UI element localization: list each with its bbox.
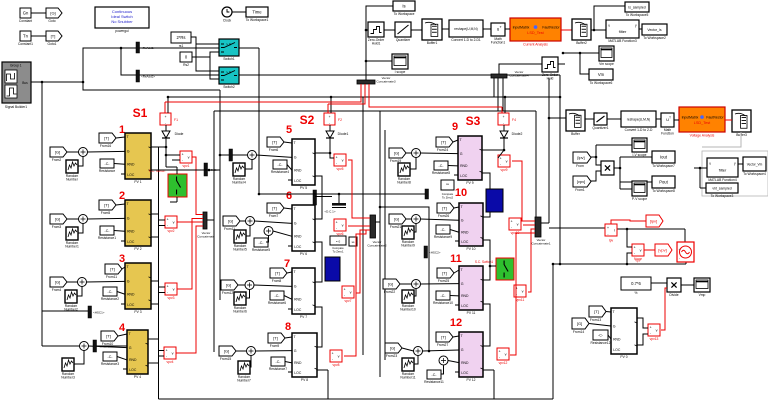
svg-text:+: +: [500, 156, 502, 160]
svg-text:reshape(U,M,N): reshape(U,M,N): [627, 118, 650, 122]
from tag [G] From2: [50, 147, 67, 162]
svg-text:-C-: -C-: [259, 241, 265, 245]
svg-text:G: G: [129, 346, 132, 350]
wire: F2 to diode1: [329, 125, 331, 128]
svg-text:+: +: [332, 351, 334, 355]
wire: vpv3 red to concatenate: [177, 219, 203, 290]
wire: PV5-PV6 series: [315, 176, 322, 219]
svg-text:Number4: Number4: [232, 181, 246, 185]
svg-text:vpv12: vpv12: [499, 361, 508, 365]
svg-text:LOC: LOC: [460, 174, 468, 178]
svg-text:<D.C.1>: <D.C.1>: [324, 210, 335, 214]
powergui block: [95, 7, 149, 33]
svg-text:Resistance2: Resistance2: [101, 297, 119, 301]
svg-text:Switch1: Switch1: [223, 57, 235, 61]
svg-text:G: G: [294, 285, 297, 289]
svg-text:[T]: [T]: [106, 334, 111, 339]
selector <Gstar1>: [93, 340, 112, 352]
wire: bus to Gstar2 bar: [220, 154, 229, 156]
wire: red tap into F1: [164, 102, 166, 113]
wire: 2*Rs into switches: [191, 37, 219, 44]
svg-text:[T]: [T]: [594, 309, 599, 314]
svg-text:Ipv: Ipv: [609, 239, 614, 243]
random number module 8: [237, 361, 251, 383]
wire: from14 to PV0 G: [589, 324, 611, 327]
buffer2: [572, 19, 591, 45]
sum junction module 9: [412, 149, 421, 158]
svg-text:vpv11: vpv11: [516, 298, 525, 302]
pv module PV 11: [459, 266, 483, 315]
diode Diode1: [326, 128, 348, 141]
svg-text:%: %: [635, 291, 638, 295]
svg-text:v: v: [338, 355, 340, 359]
random number module 6: [233, 230, 247, 252]
wire: vpv meas taps: [627, 229, 632, 247]
diode Diode2: [500, 128, 522, 141]
svg-text:LOC: LOC: [461, 371, 469, 375]
svg-text:12: 12: [450, 317, 462, 329]
quantizer1: [592, 113, 608, 130]
svg-text:-: -: [500, 162, 501, 166]
svg-text:Number3: Number3: [61, 376, 75, 380]
wire: short line y=196.5: [315, 196, 332, 198]
svg-text:S2: S2: [300, 113, 315, 127]
svg-text:Quantizer1: Quantizer1: [592, 126, 608, 130]
wire: LOC stub module 7: [288, 308, 292, 310]
svg-text:Buffer3: Buffer3: [736, 133, 747, 137]
svg-text:vpv5: vpv5: [337, 167, 344, 171]
svg-text:PV 9: PV 9: [466, 181, 473, 185]
wire: branch y=207 to x=429: [380, 207, 429, 351]
wire: vpv10 red to concat1: [523, 224, 535, 226]
wire: fuse to diode: [165, 125, 167, 128]
svg-text:-C-: -C-: [598, 333, 604, 337]
wire: red tap into F4: [501, 107, 503, 113]
svg-text:Function1: Function1: [491, 41, 506, 45]
resistance module 9: [432, 161, 450, 175]
svg-text:PV 4: PV 4: [134, 375, 141, 379]
svg-text:Buffer1: Buffer1: [427, 41, 438, 45]
svg-text:-: -: [336, 226, 337, 230]
svg-text:-: -: [499, 355, 500, 359]
svg-text:Resistance10: Resistance10: [433, 301, 453, 305]
wire: 0.7 to divide: [651, 282, 667, 284]
to-workspace Pout: [652, 176, 675, 193]
svg-text:Tn: Tn: [23, 34, 29, 39]
random number module 9: [397, 163, 411, 185]
svg-text:[T]: [T]: [441, 140, 446, 145]
svg-text:+: +: [166, 348, 168, 352]
wire: PV2 plus stub: [151, 213, 159, 215]
sum junction module 5: [248, 151, 257, 160]
red goto [vpv]: [655, 244, 672, 256]
svg-text:-: -: [167, 223, 168, 227]
svg-text:[G]: [G]: [394, 217, 399, 222]
voltage measurement vpv10: [509, 218, 521, 235]
svg-text:Signal Builder1: Signal Builder1: [5, 105, 27, 109]
svg-text:vpv9: vpv9: [501, 168, 508, 172]
wire: vpv6 red to concat2: [348, 225, 370, 227]
svg-text:Concatenate3: Concatenate3: [376, 79, 396, 83]
vector concatenate2: [367, 215, 387, 247]
vector concatenate1: [531, 217, 551, 245]
svg-text:[G]: [G]: [50, 11, 55, 16]
pv module PV 10: [459, 203, 483, 251]
wire: concat S1 out to x=214: [207, 219, 214, 221]
wire: S3 bottom drop x=494: [493, 370, 495, 399]
wire: to Vm workspace: [580, 53, 589, 74]
from tag [G] From23: [385, 343, 402, 358]
random number module 11: [400, 290, 416, 312]
wire: resistance11 into sum 12b: [441, 366, 444, 375]
svg-text:Resistance5: Resistance5: [252, 248, 270, 252]
svg-text:PV 3: PV 3: [134, 310, 141, 314]
quantizer: [395, 22, 411, 42]
wire: G chain into PV 12: [402, 348, 414, 351]
wire: F4 to diode2: [503, 125, 505, 128]
svg-text:+: +: [182, 152, 184, 156]
svg-text:P-V scope: P-V scope: [632, 197, 647, 201]
I scope: [392, 54, 408, 74]
wire: G chain into PV 10: [406, 218, 412, 220]
svg-text:To Workspace1: To Workspace1: [246, 18, 269, 22]
buffer: [566, 110, 585, 136]
from tag [T] From8: [270, 268, 287, 283]
wire: reshape1-mathfn1: [483, 28, 491, 30]
svg-text:To Workspace2: To Workspace2: [643, 36, 666, 40]
voltage measurement vpv1: [180, 151, 192, 168]
svg-text:From27: From27: [437, 343, 449, 347]
wire: PV3 minus stub: [151, 303, 159, 305]
wire: Tn to Goto1: [31, 35, 46, 37]
svg-text:RND: RND: [294, 234, 302, 238]
svg-text:To Workspace: To Workspace: [394, 12, 415, 16]
svg-text:+: +: [511, 219, 513, 223]
svg-text:FaultVector: FaultVector: [706, 116, 724, 120]
fuse F2: [324, 113, 342, 125]
wire: LOC stub module 6: [288, 245, 292, 247]
svg-text:+: +: [499, 349, 501, 353]
svg-text:Resistance9: Resistance9: [434, 235, 452, 239]
wire: top bus y=111: [214, 110, 536, 112]
wire: res12 to PV0 RND: [608, 335, 611, 339]
svg-text:+: +: [607, 226, 609, 230]
clock block: [222, 7, 232, 23]
wire: product outputs: [614, 167, 620, 169]
wire: random number to sum module 1: [78, 157, 83, 167]
wire: PV3 plus stub: [151, 280, 159, 282]
svg-text:-C-: -C-: [441, 228, 447, 232]
wire: vpv1 red to concatenate: [192, 157, 203, 215]
resistance module 7: [268, 291, 286, 305]
wire: filter4 to vector_vm: [738, 163, 743, 165]
svg-text:Current Analysis: Current Analysis: [523, 42, 548, 46]
from tag [G] From21: [389, 214, 406, 229]
svg-text:S1: S1: [133, 106, 148, 120]
svg-text:RND: RND: [127, 229, 135, 233]
svg-text:Number11: Number11: [400, 376, 415, 380]
sum junction module 6: [246, 217, 255, 226]
svg-text:-: -: [182, 158, 183, 162]
sum junction module 11: [412, 280, 421, 289]
wire: junction to vpv1: [166, 154, 180, 156]
svg-text:Pout: Pout: [659, 180, 668, 185]
svg-text:To Workspace4: To Workspace4: [743, 172, 766, 176]
svg-text:+: +: [165, 115, 167, 119]
wire: G chain into PV 6: [240, 220, 246, 222]
svg-text:Resistance12: Resistance12: [591, 341, 611, 345]
wire: into buffer: [549, 117, 566, 119]
wire: random number to sum module 6: [246, 226, 250, 237]
product multiply: [601, 161, 614, 175]
voltage measurement vpv11: [514, 285, 526, 302]
svg-text:Iout: Iout: [660, 155, 668, 160]
svg-text:[T]: [T]: [104, 136, 109, 141]
svg-text:-: -: [634, 251, 635, 255]
svg-text:F1: F1: [174, 118, 178, 122]
sum junction module 10: [412, 215, 421, 224]
svg-text:LOC: LOC: [127, 303, 135, 307]
wire: right vertical x=560: [559, 75, 561, 264]
resistance module 4: [101, 352, 119, 366]
wire: blue to PV10: [483, 212, 490, 217]
svg-text:PV 6: PV 6: [300, 252, 307, 256]
wire: concat riser x=549: [548, 78, 550, 223]
svg-text:Is_sampled: Is_sampled: [628, 6, 645, 10]
wire: PV2 minus stub: [151, 236, 159, 238]
svg-text:2*Rs: 2*Rs: [176, 35, 185, 40]
fuse F1: [160, 113, 178, 125]
pv module PV 3: [125, 263, 151, 314]
svg-text:PV 0: PV 0: [620, 355, 627, 359]
wire: Gstar bar to PV4 G input: [96, 345, 127, 347]
sum junction module 12: [414, 347, 423, 356]
wire: branch to Gstar bar: [42, 345, 80, 347]
svg-text:u: u: [709, 162, 711, 166]
random number module 12: [400, 358, 415, 380]
from tag [G] From19: [389, 148, 406, 163]
svg-text:G: G: [294, 222, 297, 226]
wire: signal-builder bus horizontal y=82: [31, 81, 83, 83]
svg-text:To Zero1: To Zero1: [332, 249, 343, 253]
wire: resistance to RND module 4: [117, 357, 127, 360]
svg-text:To Zero2: To Zero2: [442, 195, 453, 199]
wire: junction into vpv5: [330, 153, 334, 158]
wire: resistance to RND module 5: [287, 165, 292, 171]
wire: zoh out right: [558, 63, 565, 65]
wire: bottom riser x=553: [552, 264, 554, 399]
vector concatenate3: [357, 76, 396, 84]
svg-text:Resistance: Resistance: [99, 169, 115, 173]
wire: resistance to RND module 8: [285, 362, 292, 363]
wire: T into PV 2: [116, 204, 125, 205]
wire: Ipv to goto ipv (red): [611, 220, 646, 224]
svg-text:+: +: [650, 325, 652, 329]
from13 [T]: [589, 306, 606, 322]
svg-text:G: G: [294, 349, 297, 353]
from tag [T] From6: [267, 137, 284, 152]
svg-text:From13: From13: [590, 318, 602, 322]
wire: mid vertical x=385: [384, 130, 386, 360]
wire: S1 series bus vertical x=158.5: [158, 147, 160, 399]
svg-text:v: v: [656, 329, 658, 333]
svg-text:InputMatrix: InputMatrix: [682, 116, 699, 120]
svg-text:[T]: [T]: [442, 271, 447, 276]
svg-text:v: v: [517, 223, 519, 227]
svg-text:I scope: I scope: [395, 70, 406, 74]
from1 [vpv]: [573, 176, 591, 192]
wire: resistance to RND module 11: [450, 295, 459, 297]
svg-text:[T]: [T]: [442, 206, 447, 211]
wire: red riser to F1: [165, 84, 361, 102]
wire: red riser to F2: [328, 84, 365, 104]
selector near compare2: [425, 189, 429, 199]
wire: T into PV 4: [118, 334, 127, 336]
bypass diode subsystem blue S2: [325, 257, 340, 281]
svg-text:From26: From26: [438, 214, 450, 218]
svg-text:v: v: [173, 288, 175, 292]
from tag [T] From5: [99, 200, 116, 215]
wire: random number to sum module 7: [246, 290, 250, 299]
svg-text:6: 6: [286, 190, 292, 202]
svg-text:From14: From14: [573, 330, 585, 334]
svg-text:> 0: > 0: [226, 71, 231, 75]
svg-text:[G]: [G]: [226, 283, 231, 288]
svg-text:v: v: [640, 249, 642, 253]
svg-text:[vpv]: [vpv]: [658, 248, 666, 253]
from tag [T] From10: [101, 331, 118, 346]
svg-text:RND: RND: [294, 168, 302, 172]
svg-text:Diode: Diode: [175, 132, 184, 136]
pv module PV 4: [127, 330, 148, 379]
svg-text:RND: RND: [461, 230, 469, 234]
svg-text:From3: From3: [52, 225, 62, 229]
svg-text:Voltage Analysis: Voltage Analysis: [690, 133, 715, 137]
resistance module 6: [252, 238, 270, 252]
wire: vpv11 red to concat1: [528, 229, 535, 292]
svg-text:-: -: [336, 161, 337, 165]
wire: diode1 down: [329, 141, 331, 153]
wire: ipv to product and IV scope: [591, 157, 601, 165]
wire: top bus y=97: [168, 96, 560, 98]
svg-text:[G]: [G]: [224, 349, 229, 354]
svg-text:-C-: -C-: [441, 294, 447, 298]
svg-text:Resistance3: Resistance3: [101, 362, 119, 366]
svg-text:-C-: -C-: [278, 163, 284, 167]
svg-text:Time: Time: [252, 10, 262, 15]
to-workspace Vector_Vm: [743, 157, 766, 176]
wire: filter4 input tee: [694, 167, 707, 169]
wire: red riser to F4: [369, 84, 502, 107]
svg-text:v: v: [350, 291, 352, 295]
wire: bus step down to y=90: [83, 82, 220, 90]
wire: fuse F4 top to bus: [504, 97, 506, 113]
wire: LOC stub module 3: [121, 303, 125, 305]
svg-text:0.7*6: 0.7*6: [631, 281, 641, 286]
svg-text:S3: S3: [466, 114, 481, 128]
svg-text:Number7: Number7: [237, 379, 251, 383]
svg-text:<HSC1>: <HSC1>: [93, 310, 105, 314]
wire: vpv5 red to concat2: [348, 160, 370, 218]
wire: junction into green switch1: [490, 265, 496, 267]
wire: random number to sum module 2: [78, 224, 83, 234]
svg-text:LOC: LOC: [461, 240, 469, 244]
svg-text:Is: Is: [402, 4, 405, 9]
svg-text:[T]: [T]: [104, 203, 109, 208]
svg-text:[ipv]: [ipv]: [650, 219, 657, 224]
wire: T into PV 7: [287, 272, 292, 273]
wire: vpv to product: [591, 171, 601, 181]
random number module 10: [401, 226, 415, 248]
svg-text:[T]: [T]: [272, 140, 277, 145]
wire: G chain into PV 7: [238, 284, 245, 286]
wire: negative rail y=264: [553, 263, 686, 265]
wire: PV10-PV11 series: [483, 240, 490, 280]
svg-text:Rs2: Rs2: [183, 63, 189, 67]
wire: vpv2 red to concatenate: [177, 221, 203, 223]
matlab function3 filter: [606, 20, 639, 43]
svg-text:Number9: Number9: [401, 244, 415, 248]
svg-text:[ipv]: [ipv]: [577, 155, 584, 160]
svg-text:RND: RND: [613, 337, 621, 341]
current measurement Ipv: [605, 224, 617, 243]
wire: RsAdd2 to Switch2: [140, 74, 220, 76]
wire: G chain into PV 4: [89, 346, 128, 348]
from tag [T] From26: [437, 203, 454, 218]
zero-order hold1: [368, 22, 385, 46]
svg-text:PV 8: PV 8: [301, 378, 308, 382]
short-circuit switch S.C. Switch: [149, 169, 187, 197]
svg-text:LSD_Test: LSD_Test: [527, 31, 544, 35]
wire: switch2 output y=75: [239, 74, 560, 76]
reshape convert 1-D to 2-D1: [449, 20, 483, 42]
pv module PV 5: [292, 139, 315, 190]
selector <S.C.>: [204, 163, 219, 176]
svg-text:-C-: -C-: [108, 290, 114, 294]
from tag [T] From27: [436, 332, 453, 347]
P-V scope: [632, 181, 647, 201]
svg-text:G: G: [127, 150, 130, 154]
short-circuit switch S.C. Switch1: [475, 258, 514, 280]
svg-text:8: 8: [285, 321, 291, 333]
pv module PV 6: [292, 205, 315, 256]
random number module 7: [233, 292, 247, 314]
svg-text:vpv13: vpv13: [650, 337, 659, 341]
wire: random number to sum module 12: [414, 356, 418, 365]
wire: filter-vector_is: [639, 28, 642, 30]
wire: T into PV 5: [284, 142, 292, 143]
wire: switch1 out: [239, 47, 259, 49]
sum junction module 1: [79, 148, 88, 157]
wire: junction into green switch: [166, 166, 177, 168]
svg-text:Number8: Number8: [397, 181, 411, 185]
voltage measurement vpv8: [330, 350, 342, 367]
svg-text:From24: From24: [437, 148, 449, 152]
svg-text:From25: From25: [438, 279, 450, 283]
svg-text:10: 10: [455, 187, 467, 199]
resistance module 3: [101, 287, 119, 301]
matlab function4 filter: [707, 158, 738, 182]
wire: green switch bottom: [176, 197, 178, 202]
svg-text:Buffer2: Buffer2: [576, 41, 587, 45]
svg-text:Vmp: Vmp: [699, 293, 706, 297]
wire: PV4 minus stub: [148, 362, 159, 364]
svg-text:[G]: [G]: [55, 150, 60, 155]
svg-text:LOC: LOC: [127, 240, 135, 244]
svg-text:Resistance8: Resistance8: [432, 171, 450, 175]
svg-text:From23: From23: [386, 354, 398, 358]
svg-text:vpv1: vpv1: [183, 164, 190, 168]
